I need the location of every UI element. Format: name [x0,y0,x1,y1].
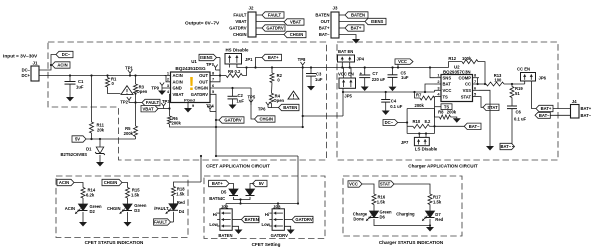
wire down to CFET setting box [297,156,299,204]
resistor R5 [134,126,138,137]
svg-text:200k: 200k [124,131,134,136]
net flag GATDRV [262,25,285,31]
svg-text:TP8: TP8 [298,57,306,62]
svg-text:1uF: 1uF [76,85,84,90]
svg-text:C1: C1 [78,79,84,84]
svg-text:ACIN: ACIN [173,80,183,85]
capacitor C2 [228,95,238,97]
wire JP3 mid to GATDRV [284,219,292,221]
net flag BAT+ [345,25,364,31]
net flag DC- [56,51,73,57]
svg-text:1uF: 1uF [401,75,409,80]
wire R6 rail to bus [170,124,303,127]
svg-text:GATDRV: GATDRV [271,233,289,238]
jumper JP5 [339,78,356,88]
test point TP4 [208,106,212,112]
svg-text:51: 51 [515,91,520,96]
svg-text:0.1 uF: 0.1 uF [514,117,527,122]
wire GATDRV rail bottom [216,155,298,157]
svg-text:DC–: DC– [385,120,394,125]
svg-text:VBAT: VBAT [173,92,185,97]
svg-text:TP5: TP5 [248,95,256,100]
svg-text:JP4: JP4 [357,57,365,62]
svg-text:CHGIN: CHGIN [260,117,274,122]
svg-text:VCC: VCC [349,182,358,187]
resistor R16 [372,194,376,205]
wire R12 down to CC node [478,62,485,84]
svg-text:ISENS: ISENS [200,55,213,60]
wire U2 pin5 to STAT flag [479,97,483,108]
ground below C5 [389,87,397,92]
svg-text:JP5: JP5 [344,94,352,99]
diode D1 zener B2T52C6VBS [96,147,104,154]
wire U1 pad to ground [187,103,189,109]
net flag VBAT at U1 [141,106,158,112]
svg-text:OUT: OUT [199,80,208,85]
svg-text:TP6: TP6 [258,107,266,112]
wire bus down from rail at TP8 [302,68,304,128]
svg-text:BAT+: BAT+ [319,26,330,31]
svg-text:1.5k: 1.5k [176,191,185,196]
svg-text:Open: Open [137,89,148,94]
net flag ACIN in status box [57,179,74,185]
svg-text:1uF: 1uF [237,98,245,103]
svg-text:8.2: 8.2 [425,119,431,124]
svg-text:R12: R12 [448,56,456,61]
wire to JP7 left [418,134,420,138]
FAULT net wire [129,102,142,104]
svg-text:220 uF: 220 uF [372,77,386,82]
net flag FAULT in status box [154,219,171,225]
wire rail to C5 [392,68,394,75]
svg-text:D3: D3 [134,208,140,213]
resistor R6 [168,116,172,124]
svg-text:VCC: VCC [398,59,407,64]
resistor R18 [172,187,176,197]
wire J3-BAT+ [339,27,345,29]
svg-text:Charger APPLICATION CIRCUIT: Charger APPLICATION CIRCUIT [408,164,478,169]
wire to C2 [232,88,234,96]
svg-text:BAT+: BAT+ [581,106,592,111]
svg-text:VCC: VCC [443,88,452,93]
svg-text:7: 7 [212,77,214,82]
wire R18 top exits box [174,182,202,187]
wire rail to C7 [364,68,366,76]
svg-text:200k: 200k [447,109,457,114]
wire D5 common cathode [234,197,251,200]
svg-text:0.1 uF: 0.1 uF [390,104,403,109]
net flag BAT- at J4 [535,112,550,118]
svg-text:R7: R7 [416,93,422,98]
capacitor C4 [381,99,390,101]
svg-text:C2: C2 [238,93,244,98]
wire U2 pin4 TS down [435,97,440,117]
capacitor C1 [69,76,71,82]
wire DC- to ladder [398,122,407,124]
svg-text:JP7: JP7 [401,140,409,145]
ground below C7 [361,87,369,92]
jumper JP2 [220,209,232,231]
wire VCC to R16 [362,184,374,194]
wire VBAT to R6 [169,109,171,117]
LED D4 red /FAULT [169,204,178,211]
wire JP6 right stem to BAT+ [532,81,537,109]
wire JP5 left stem up [343,68,345,79]
net flag BATEN in box1 [279,104,300,110]
svg-text:TP2: TP2 [120,100,128,105]
net flag GATDRV in box1 [219,117,244,123]
svg-text:100k: 100k [462,56,472,61]
svg-text:STAT: STAT [487,105,498,110]
wire R3 to FAULT net [135,93,137,102]
svg-text:6.2k: 6.2k [86,193,95,198]
diode D5 second half [246,189,255,196]
wire to D1 [99,139,101,147]
svg-text:BAT+: BAT+ [541,106,552,111]
wire D3 to ground [127,212,129,222]
wire J1 to DC- flag [39,55,56,71]
wire ladder right vertical [434,109,436,134]
svg-text:VBAT: VBAT [235,19,247,24]
test point TP7 [213,65,217,71]
net flag ISENS [365,18,386,24]
svg-text:COMP: COMP [458,75,471,80]
svg-text:BAT+: BAT+ [212,181,223,186]
wire J3-BATEN [339,14,345,16]
svg-text:GATDRV: GATDRV [295,217,313,222]
svg-text:GATDRV: GATDRV [191,92,209,97]
svg-text:Charging: Charging [396,211,415,216]
svg-text:D1: D1 [86,147,92,152]
svg-text:GND: GND [173,86,182,91]
wire ACIN to R14 [74,183,83,188]
svg-text:5V: 5V [75,137,80,142]
test point TP6 [266,102,270,108]
svg-text:TP9: TP9 [151,86,159,91]
wire JP5 bottom stem down to bus [342,88,344,116]
wire R14 to D2 [82,198,84,204]
svg-text:FAULT: FAULT [146,100,160,105]
wire R19 to C6 [511,98,513,107]
svg-text:BAT–: BAT– [500,144,511,149]
svg-text:DC–: DC– [22,67,31,72]
net flag ISENS at U1 [199,54,217,60]
net flag CHGIN in box1 [255,116,276,122]
svg-text:BAT+: BAT+ [268,55,279,60]
svg-text:D6: D6 [380,214,386,219]
svg-text:Input = 3V–30V: Input = 3V–30V [3,54,38,60]
jumper JP3 [272,209,284,231]
svg-text:TP7: TP7 [206,62,214,67]
svg-text:BAT54C: BAT54C [209,196,225,201]
wire rail to C3 [310,68,312,74]
resistor R17 [428,194,432,205]
wire rail to R3 [135,76,137,85]
svg-text:200k: 200k [415,103,425,108]
wire J2-FAULT [256,14,262,16]
svg-text:BATEN: BATEN [218,233,232,238]
wire to JP3 top [277,204,279,209]
warning triangle (R4) [288,91,299,99]
svg-text:TP1: TP1 [125,66,133,71]
LED D3 green CHGIN [123,204,132,211]
svg-text:CFET APPLICATION CIRCUIT: CFET APPLICATION CIRCUIT [206,164,270,169]
ground at U1 pin3 [158,91,166,96]
net flag VCC in status box [348,181,362,187]
wire rail2 to C4 [385,92,387,100]
wire R1 bottom [108,87,121,94]
ground below C3 [307,86,315,91]
wire D1 to ground [99,155,101,162]
wire BAT- to J4 [550,114,570,116]
svg-text:C3: C3 [316,72,322,77]
net flag ACIN [52,62,70,68]
wire to R1 [107,76,109,78]
wire ladder bottom rung [407,133,434,135]
svg-text:R10: R10 [413,119,421,124]
svg-text:100: 100 [494,78,502,83]
diode D5 BAT54C dual [229,189,238,196]
net flag CHGIN in status box [102,179,122,185]
svg-text:VBAT: VBAT [290,20,302,25]
svg-text:Open: Open [273,98,284,103]
svg-text:R9 0.2: R9 0.2 [228,69,241,74]
svg-text:CHGIN: CHGIN [195,86,209,91]
wire U1 pin6 CHGIN stub [210,87,251,89]
svg-text:CHGIN: CHGIN [104,180,118,185]
svg-text:C7: C7 [372,71,378,76]
net flag BAT+ at J4 [536,105,553,111]
resistor R15 [126,188,130,199]
capacitor C6 [507,105,517,107]
svg-text:JP1: JP1 [245,57,253,62]
wire JP2 low to ground [232,226,238,229]
ground at JP2 [235,230,243,235]
ground in charger status box [426,227,434,232]
svg-text:BAT–: BAT– [539,113,550,118]
capacitor C3 [306,73,316,75]
wire JP4 right stem [349,62,351,68]
wire R16 to D6 [373,205,375,212]
svg-text:BAT+: BAT+ [351,26,362,31]
test point TP3 [161,103,165,109]
svg-text:PGnd: PGnd [184,98,195,103]
resistor R1 [106,78,110,88]
wire R8 to ground [451,117,457,118]
svg-text:GATDRV: GATDRV [266,26,284,31]
ground below C2 [229,105,237,110]
wire R4 to BATEN flag [272,103,279,107]
ground below D1 [96,162,104,167]
svg-text:BATEN: BATEN [283,105,297,110]
net flag FAULT at U1 [142,99,160,105]
wire JP1 left stem [229,64,231,68]
wire setting box top rail [226,203,298,205]
wire JP2 mid to BATEN [232,219,241,221]
svg-text:JP6: JP6 [539,76,547,81]
resistor R2 [270,73,274,83]
wire STAT to R17 [394,184,430,194]
resistor R9 0.2 [226,74,243,78]
resistor R7 [420,96,435,100]
jumper JP7 [414,137,429,145]
net flag 5V [72,136,86,142]
svg-text:GATDRV: GATDRV [229,26,247,31]
wire J3-ISENS [339,21,365,23]
VBAT net wire [158,108,170,110]
wire U1 pin1 stub [165,75,171,77]
svg-text:D5: D5 [221,190,227,195]
ground below C4 [382,111,390,116]
capacitor C5 [388,74,398,76]
wire R15 to D3 [127,198,129,204]
svg-text:U1: U1 [191,59,197,64]
resistor R19 [510,87,514,98]
wire rail to R2 [271,68,273,74]
wire to BAT+ flag [256,58,263,68]
resistor R10 8.2 [407,125,413,127]
wire U1 pin7 joins OUT node [210,58,220,82]
svg-text:Output= 0V–7V: Output= 0V–7V [185,21,220,27]
svg-text:!: ! [189,74,195,94]
LED D7 red Charging [426,211,435,218]
net flag GATDRV in setting box [292,216,313,222]
svg-text:CC: CC [465,82,471,87]
wire ladder top rung [407,108,434,110]
svg-text:DC+: DC+ [22,73,31,78]
net flag BATEN [345,12,368,18]
wire ladder left vertical [406,109,408,134]
ground below D3 [124,222,132,227]
wire FAULT to R5 [135,103,137,127]
svg-text:CFET Setting: CFET Setting [252,242,281,247]
wire to JP7 right [425,134,427,138]
5V node wire [86,138,136,140]
svg-text:CC EN: CC EN [517,67,530,72]
CFET application circuit dashed boundary [48,42,327,160]
svg-text:CHGIN: CHGIN [107,206,121,211]
svg-text:20k: 20k [97,128,105,133]
svg-text:CHGIN: CHGIN [290,32,304,37]
wire R5 to 5V [135,137,137,140]
net flag STAT [483,104,499,110]
svg-text:BQ29357C3N: BQ29357C3N [443,70,471,75]
wire J2-CHGIN [256,34,284,36]
svg-text:BATEN: BATEN [315,13,329,18]
net flag STAT in status box [379,181,394,187]
svg-text:JP3: JP3 [273,204,281,209]
svg-text:J4: J4 [572,99,577,104]
wire R17 to D7 [429,205,431,212]
wire ISENS to node [217,57,221,59]
svg-text:STAT: STAT [461,94,472,99]
svg-text:ISENS: ISENS [371,19,384,24]
wire JP5 right stem up [350,68,352,79]
wire rail to R12 [449,62,463,68]
net flag TS [441,104,452,110]
net flag BATEN in setting box [241,216,259,222]
resistor R11 [90,122,94,133]
wire D2 to ground [82,212,84,222]
test point TP5 [249,100,253,106]
wire U2 pin2 stub to rail2 [425,84,435,92]
svg-text:/FAULT: /FAULT [154,206,169,211]
wire rail2 to U2 pin3 [434,90,436,92]
LED D2 green ACIN [79,204,88,211]
test point TP1 [128,70,132,76]
svg-text:BQ24351DSG: BQ24351DSG [175,66,206,71]
ground below U1 pad [184,108,192,113]
net flag BAT+ in setting box [209,180,229,186]
main input wire ACIN rail [39,75,165,77]
svg-text:VSS: VSS [463,88,472,93]
svg-text:CFET STATUS INDICATION: CFET STATUS INDICATION [85,240,144,245]
resistor R4 [270,93,274,103]
wire to R11 [91,76,93,123]
CFET status indication dashed box [56,176,188,238]
net flag FAULT [262,12,284,18]
svg-text:1.5k: 1.5k [131,193,140,198]
svg-text:1uF: 1uF [315,77,323,82]
ground at U2 VSS [486,146,494,151]
LED D6 green Charge Done [370,211,379,218]
Charger application circuit dashed boundary [337,42,558,160]
svg-text:TS: TS [443,94,449,99]
wire 5V to D5b [250,184,255,190]
wire CHGIN to R15 [122,183,128,188]
svg-text:TP4: TP4 [206,104,214,109]
net flag VBAT [284,19,304,25]
svg-text:+: + [360,71,363,76]
VCC rail in charger box [343,91,435,93]
svg-text:BAT: BAT [443,82,452,87]
svg-text:BATEN: BATEN [245,217,259,222]
svg-text:1.5k: 1.5k [377,200,386,205]
svg-text:ACIN: ACIN [57,63,67,68]
svg-text:BAT–: BAT– [319,32,330,37]
svg-text:FAULT: FAULT [154,220,168,225]
wire JP3 low to ground [284,226,290,229]
svg-text:Low: Low [209,222,218,227]
resistor R3 [134,84,138,93]
svg-text:R8: R8 [438,109,444,114]
svg-text:200k: 200k [172,121,182,126]
svg-text:Red: Red [177,200,185,205]
svg-text:STAT: STAT [380,182,391,187]
svg-text:CHGIN: CHGIN [233,32,247,37]
svg-text:FAULT: FAULT [268,13,282,18]
svg-text:VBAT: VBAT [142,106,154,111]
capacitor C7 220uF polarized [359,74,370,76]
wire BAT+ to J4 [553,108,571,110]
wire to ACIN flag [51,64,52,66]
wire to JP2 top [225,204,227,209]
wire node to R19 [511,84,513,87]
ground below R8 [453,118,461,123]
svg-text:B2T52C6VBS: B2T52C6VBS [61,152,88,157]
svg-text:D2: D2 [90,209,96,214]
jumper JP6 [521,73,536,82]
test point TP8 [301,62,305,68]
svg-text:5V: 5V [259,181,264,186]
svg-text:7: 7 [474,79,476,84]
Charger status indication dashed box [343,176,462,236]
wire JP4 left stem [341,62,343,68]
CFET setting dashed box [204,176,325,239]
net flag BAT- after R10 [464,123,481,129]
svg-text:J2: J2 [249,6,254,11]
wire R13 to CC node [504,83,525,85]
